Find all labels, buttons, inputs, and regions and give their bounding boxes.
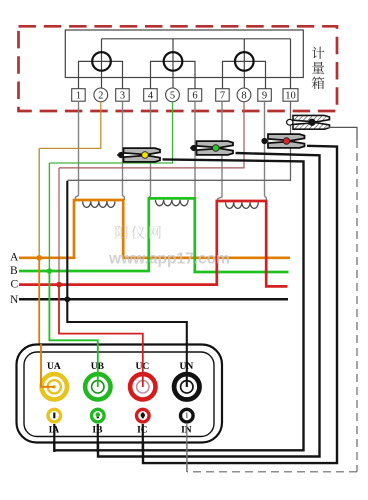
svg-text:4: 4 — [148, 91, 154, 102]
svg-text:www.app17.com: www.app17.com — [108, 251, 230, 268]
svg-text:B: B — [10, 265, 18, 277]
svg-text:UA: UA — [47, 362, 61, 372]
svg-text:9: 9 — [262, 91, 267, 102]
svg-text:5: 5 — [170, 91, 175, 102]
svg-text:7: 7 — [220, 91, 225, 102]
svg-text:10: 10 — [285, 91, 296, 102]
svg-text:A: A — [10, 251, 19, 263]
svg-text:6: 6 — [192, 91, 197, 102]
svg-text:8: 8 — [241, 91, 246, 102]
svg-text:1: 1 — [76, 91, 81, 102]
svg-text:N: N — [10, 294, 19, 306]
svg-text:2: 2 — [98, 91, 103, 102]
svg-text:3: 3 — [120, 91, 125, 102]
svg-text:C: C — [11, 279, 19, 291]
